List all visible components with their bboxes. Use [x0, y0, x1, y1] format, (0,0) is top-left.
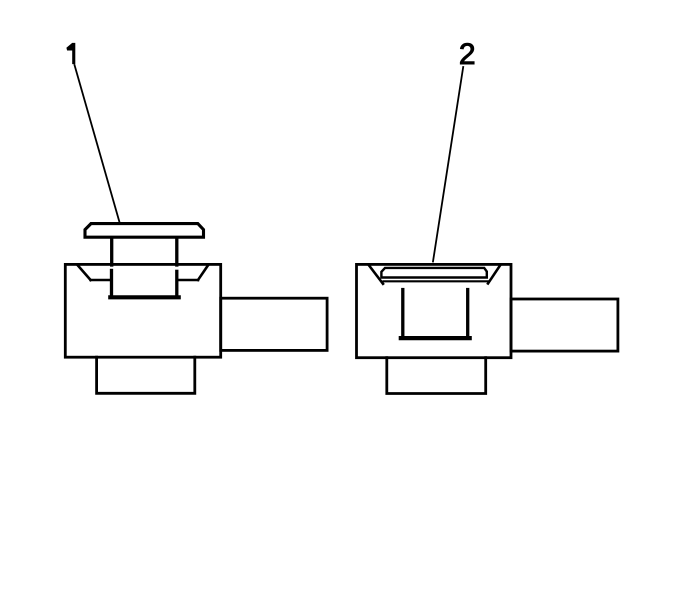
retainer 2 body [357, 264, 512, 357]
retainer 1 button cap (extended) [85, 224, 204, 238]
svg-text:2: 2 [459, 38, 476, 71]
retainer 1 bore ledge left [91, 279, 111, 282]
retainer 1 bore bottom [110, 295, 178, 299]
retainer 2 bore wall right [466, 288, 469, 339]
retainer 1 bore chamfer left [78, 266, 91, 280]
retainer 1 body [65, 264, 220, 357]
retainer 1 button stem right [175, 239, 178, 266]
retainer 1 bore ledge right [179, 279, 199, 282]
retainer 2 bore bottom [401, 336, 470, 340]
retainer 1 bottom tab [97, 357, 195, 393]
retainer 1 bore chamfer right [198, 266, 208, 280]
label 1 [66, 43, 75, 64]
retainer 2 bore wall left [401, 288, 404, 339]
retainer 2 side connector [511, 299, 618, 351]
retainer 2 bottom tab [387, 358, 486, 394]
leader line 2 [433, 67, 463, 262]
retainer 2 bore ledge [384, 280, 488, 282]
retainer 1 bore wall right [175, 270, 178, 298]
leader line 1 [75, 65, 120, 222]
retainer 1 button stem left [110, 239, 113, 266]
retainer 1 side connector [221, 298, 327, 350]
retainer 2 button cap (flush) [381, 268, 486, 278]
retainer 1 bore wall left [110, 269, 113, 298]
retainer 2 bore chamfer right [488, 266, 500, 284]
retainer 2 bore chamfer left [369, 266, 383, 284]
